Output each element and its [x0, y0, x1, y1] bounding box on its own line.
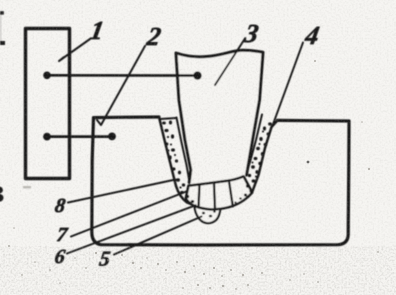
bottom scan smudge	[0, 246, 396, 295]
leader line 2	[97, 46, 145, 125]
terminal dot	[193, 71, 201, 79]
leader line 3	[215, 39, 245, 86]
segment divider	[229, 181, 233, 206]
terminal dot	[43, 133, 51, 141]
speckles in drop	[202, 210, 216, 217]
segment divider	[214, 183, 215, 209]
flux layer inner contour (left)	[177, 118, 190, 183]
workpiece block outline (plates 2, outer)	[92, 117, 349, 245]
groove wall + bottom contour	[159, 117, 278, 222]
leader line 4	[272, 43, 303, 128]
flux layer top cap (left)	[161, 118, 177, 119]
wire to electrode	[47, 74, 198, 77]
page-edge artifact top-left	[0, 11, 5, 45]
faint dash under box corner	[23, 186, 31, 188]
segment divider	[199, 185, 200, 208]
flux speckles right band	[234, 122, 272, 203]
weld pool segmented band (slag bath)	[186, 176, 252, 209]
molten drop 5	[195, 205, 221, 224]
leader line 6	[67, 205, 196, 253]
leader line 7	[71, 191, 188, 237]
electrode 3 body fill	[176, 50, 263, 185]
wire to workpiece	[47, 135, 112, 138]
leader line 5	[114, 217, 202, 255]
leader line 8	[68, 180, 176, 203]
flux speckles left band	[162, 121, 194, 204]
leader line 1	[59, 39, 90, 61]
electrode 3 outline	[176, 50, 263, 182]
flux layer inner contour (right)	[246, 115, 262, 175]
terminal dot	[108, 133, 116, 141]
terminal dot	[43, 72, 51, 80]
power source box 1	[26, 29, 70, 179]
scan noise dots	[8, 60, 379, 290]
page-edge artifact half digit	[0, 187, 4, 202]
